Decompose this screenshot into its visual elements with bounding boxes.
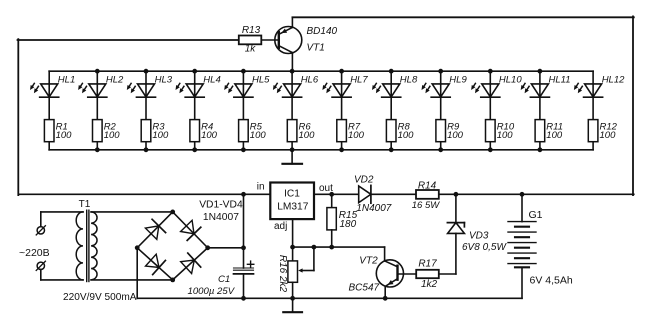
svg-text:16 5W: 16 5W xyxy=(412,200,440,211)
resistor R13 xyxy=(239,25,261,55)
LED HL12 xyxy=(574,71,625,119)
node bridge bottom xyxy=(170,278,175,283)
svg-text:VD3: VD3 xyxy=(469,231,489,242)
wire LED bottom rail xyxy=(49,149,593,151)
LED HL7 xyxy=(322,71,368,119)
wire VD2 to R14 xyxy=(371,193,416,195)
node bridge left xyxy=(135,245,140,250)
svg-text:HL8: HL8 xyxy=(400,74,418,85)
LED HL3 xyxy=(127,71,173,119)
capacitor C1 electrolytic xyxy=(188,194,254,298)
svg-text:C1: C1 xyxy=(218,274,230,285)
resistor R14 xyxy=(412,181,440,211)
resistor R8 xyxy=(386,120,414,150)
svg-text:HL3: HL3 xyxy=(155,74,173,85)
node VD3 junction xyxy=(454,192,459,197)
wire IC1 adj down xyxy=(292,219,294,247)
svg-text:180: 180 xyxy=(340,219,357,230)
svg-text:R17: R17 xyxy=(418,258,437,269)
ground below R16 xyxy=(283,298,302,312)
wire top-left feed to R13 xyxy=(18,39,239,41)
node bridge right xyxy=(205,245,210,250)
transistor VT2 BC547 (NPN) xyxy=(349,256,404,294)
svg-text:1N4007: 1N4007 xyxy=(356,203,391,214)
resistor R4 xyxy=(190,120,218,150)
wire VT1 emitter up xyxy=(291,17,293,27)
svg-text:IC1: IC1 xyxy=(284,188,300,199)
svg-text:LM317: LM317 xyxy=(277,202,308,213)
junction dots LED bottom rail xyxy=(95,147,542,152)
node G1 junction xyxy=(520,192,525,197)
svg-text:220V/9V 500mA: 220V/9V 500mA xyxy=(63,292,137,303)
svg-text:1N4007: 1N4007 xyxy=(203,212,239,223)
svg-text:100: 100 xyxy=(398,130,415,141)
wire bottom rail xyxy=(137,297,522,299)
diode VD2 1N4007 xyxy=(354,175,392,214)
svg-text:VD1-VD4: VD1-VD4 xyxy=(199,199,243,210)
svg-text:100: 100 xyxy=(447,130,464,141)
svg-text:HL11: HL11 xyxy=(549,74,571,85)
node bridge top xyxy=(170,210,175,215)
wire mains to primary xyxy=(41,212,83,280)
wire secondary to bridge bottom xyxy=(91,279,173,281)
LED HL6 xyxy=(273,71,319,119)
svg-text:in: in xyxy=(257,182,265,193)
svg-text:~220B: ~220B xyxy=(19,247,50,259)
svg-text:1k: 1k xyxy=(245,44,257,55)
wire R13 to VT1 base xyxy=(261,39,279,41)
node out/R15 junction xyxy=(329,192,334,197)
svg-text:1k2: 1k2 xyxy=(421,279,438,290)
svg-text:HL9: HL9 xyxy=(449,74,467,85)
transformer T1 secondary winding xyxy=(91,212,97,280)
node VT2 emitter junction xyxy=(383,296,388,301)
svg-text:HL7: HL7 xyxy=(350,74,368,85)
node wiper tap xyxy=(312,245,317,250)
svg-text:VT2: VT2 xyxy=(359,256,378,267)
resistor R2 xyxy=(93,120,121,150)
wire R14 to right edge xyxy=(439,193,634,195)
svg-text:100: 100 xyxy=(56,130,73,141)
svg-text:G1: G1 xyxy=(529,209,543,221)
svg-text:R14: R14 xyxy=(418,181,437,192)
svg-text:100: 100 xyxy=(546,130,563,141)
svg-text:100: 100 xyxy=(348,130,365,141)
wire VT2 emitter to bottom rail xyxy=(384,286,386,298)
LED HL2 xyxy=(78,71,124,119)
mains terminal top xyxy=(36,226,45,235)
LED HL4 xyxy=(176,71,221,119)
node bridge output / C1 xyxy=(241,245,246,250)
svg-text:adj: adj xyxy=(274,221,287,232)
svg-text:R16 2k2: R16 2k2 xyxy=(277,255,288,293)
node C1/in junction xyxy=(241,192,246,197)
wire rectifier output to IC1 in xyxy=(18,193,270,195)
diode VD1 (bridge arm) xyxy=(145,219,165,239)
wire adj row to VT2 collector xyxy=(384,247,386,261)
wire R17 to VD3 anode xyxy=(439,273,456,275)
wire bridge minus to bottom rail xyxy=(136,248,138,298)
svg-text:100: 100 xyxy=(600,130,617,141)
node adj/R16 xyxy=(290,245,295,250)
svg-text:HL10: HL10 xyxy=(499,74,522,85)
wire VT1 collector down to LED rail xyxy=(291,53,293,72)
svg-text:VD2: VD2 xyxy=(354,175,374,186)
svg-text:6V 4,5Ah: 6V 4,5Ah xyxy=(530,275,573,287)
node R16 / ground junction xyxy=(290,296,295,301)
LED HL11 xyxy=(521,71,571,119)
resistor R10 xyxy=(486,120,515,150)
svg-text:VT1: VT1 xyxy=(307,42,325,53)
resistor R1 xyxy=(44,120,72,150)
resistor R5 xyxy=(239,120,267,150)
wire left edge (rectifier output to LED board feed) xyxy=(17,39,19,195)
svg-text:HL5: HL5 xyxy=(252,74,270,85)
resistor R9 xyxy=(436,120,464,150)
LED HL8 xyxy=(372,71,418,119)
transistor VT1 BD140 (PNP) xyxy=(275,26,338,54)
svg-text:100: 100 xyxy=(299,130,316,141)
resistor R12 xyxy=(588,120,617,150)
LED HL1 xyxy=(30,71,75,119)
resistor R11 xyxy=(535,120,563,150)
resistor R16 trimmer 2k2 xyxy=(277,247,314,298)
wire IC1 out to VD2 xyxy=(314,193,359,195)
svg-text:T1: T1 xyxy=(79,199,91,210)
resistor R15 xyxy=(327,194,358,247)
svg-text:HL2: HL2 xyxy=(106,74,124,85)
wire top edge xyxy=(292,16,633,18)
wire adj row xyxy=(293,246,385,248)
svg-text:100: 100 xyxy=(497,130,514,141)
svg-text:6V8 0,5W: 6V8 0,5W xyxy=(462,242,507,253)
wire bridge plus output xyxy=(208,247,244,249)
svg-text:100: 100 xyxy=(152,130,169,141)
svg-text:100: 100 xyxy=(201,130,218,141)
battery G1 xyxy=(508,194,573,298)
diode VD2b (bridge arm) xyxy=(181,220,201,240)
wire VT2 base to R17 xyxy=(398,273,417,275)
svg-text:BD140: BD140 xyxy=(307,26,338,37)
LED HL10 xyxy=(471,71,522,119)
op-amp IC1 LM317 regulator xyxy=(270,183,314,220)
svg-text:HL6: HL6 xyxy=(301,74,319,85)
svg-text:R13: R13 xyxy=(242,25,261,36)
diode VD4 (bridge arm) xyxy=(181,253,201,273)
LED HL5 xyxy=(224,71,270,119)
junction dots LED top rail xyxy=(95,69,542,74)
wire secondary to bridge top xyxy=(91,211,173,213)
resistor R6 xyxy=(287,120,315,150)
svg-text:BC547: BC547 xyxy=(349,282,380,293)
wire bridge diamond xyxy=(137,212,208,280)
transformer core xyxy=(87,210,89,281)
resistor R3 xyxy=(141,120,169,150)
svg-text:HL1: HL1 xyxy=(58,74,75,85)
zener diode VD3 6V8 xyxy=(447,194,507,253)
svg-text:100: 100 xyxy=(104,130,121,141)
svg-text:1000µ 25V: 1000µ 25V xyxy=(188,286,236,297)
svg-text:100: 100 xyxy=(250,130,267,141)
node R15 bottom xyxy=(329,245,334,250)
transformer T1 primary winding xyxy=(76,212,83,280)
wire LED top rail xyxy=(49,70,593,72)
resistor R7 xyxy=(337,120,365,150)
LED HL9 xyxy=(422,71,468,119)
svg-text:HL4: HL4 xyxy=(203,74,220,85)
ground below LED board xyxy=(283,150,303,164)
mains terminal bottom xyxy=(36,261,45,270)
wire right edge xyxy=(632,16,634,195)
svg-text:HL12: HL12 xyxy=(602,74,625,85)
resistor R17 xyxy=(416,258,439,290)
node C1 bottom xyxy=(241,296,246,301)
diode VD3b (bridge arm) xyxy=(146,254,166,274)
